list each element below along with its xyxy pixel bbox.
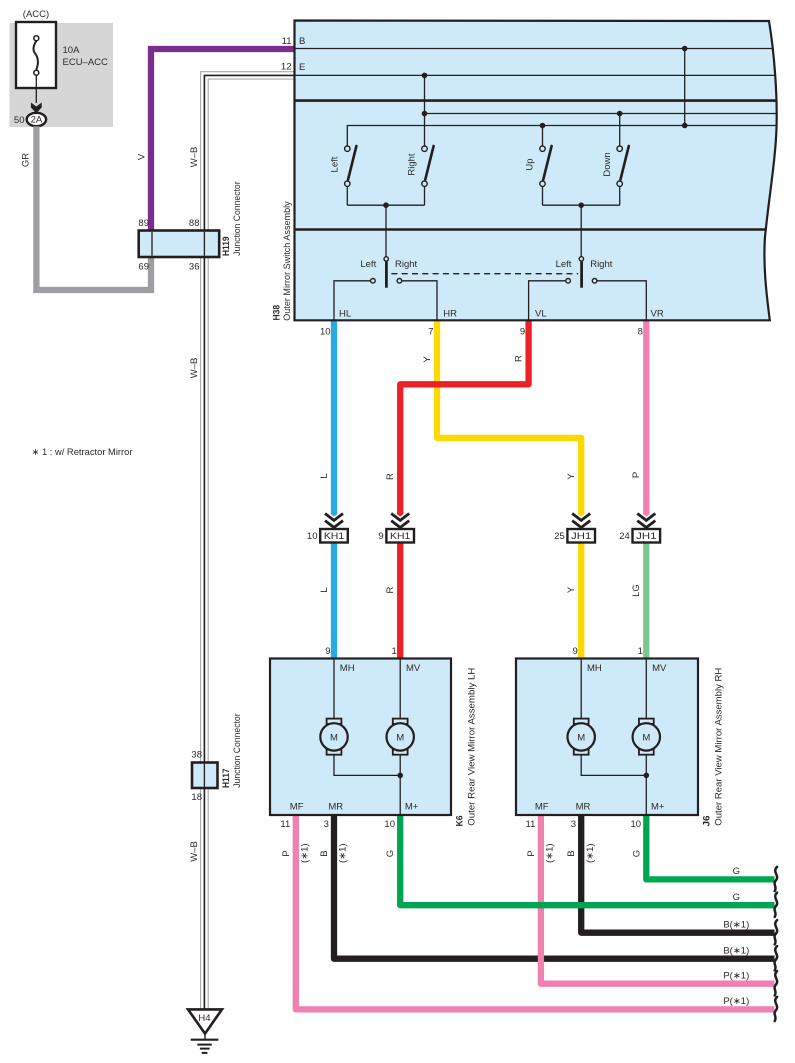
- svg-text:G: G: [385, 850, 396, 857]
- svg-text:50: 50: [14, 115, 25, 126]
- motor M: [568, 719, 595, 755]
- svg-text:J6: J6: [701, 816, 712, 827]
- svg-text:M: M: [642, 733, 650, 744]
- connector JH1 pin 24: [619, 514, 660, 543]
- svg-text:H38: H38: [272, 305, 283, 321]
- svg-text:Left: Left: [330, 156, 341, 172]
- switch Left: [345, 146, 357, 205]
- svg-text:B(∗1): B(∗1): [723, 945, 749, 956]
- wire L from HL pin 10 to mirror LH MH: [331, 320, 337, 658]
- svg-text:P(∗1): P(∗1): [723, 970, 749, 981]
- wire R from VL pin 9 to KH1 9: [400, 320, 528, 658]
- switch Up: [540, 146, 552, 205]
- wire break at right, label G: [775, 893, 778, 917]
- svg-text:E: E: [299, 62, 305, 73]
- wire LG from JH1 24 to mirror RH MV: [643, 536, 649, 659]
- svg-text:∗ 1 : w/ Retractor Mirror: ∗ 1 : w/ Retractor Mirror: [32, 447, 133, 458]
- svg-text:Outer Mirror Switch Assembly: Outer Mirror Switch Assembly: [282, 201, 293, 321]
- svg-text:B: B: [299, 36, 305, 47]
- wire motor commons to M+: [581, 755, 646, 776]
- svg-text:K6: K6: [454, 816, 465, 827]
- wire P RH MF to right edge: [541, 815, 775, 984]
- svg-text:MF: MF: [535, 801, 549, 812]
- svg-text:Y: Y: [566, 586, 577, 593]
- selector left contact: [371, 279, 376, 284]
- svg-text:MR: MR: [328, 801, 343, 812]
- terminal 2A oval: [27, 113, 46, 126]
- svg-text:Junction Connector: Junction Connector: [232, 713, 243, 787]
- wire fuse to terminal 2A: [35, 75, 37, 103]
- wire Y from HR pin 7 to JH1 25: [437, 320, 581, 658]
- svg-text:P: P: [631, 472, 642, 478]
- wire P from VR pin 8 to JH1 24: [643, 320, 649, 536]
- svg-text:9: 9: [573, 646, 578, 657]
- svg-text:(∗1): (∗1): [585, 843, 596, 863]
- svg-text:W–B: W–B: [189, 358, 200, 379]
- wire B LH MR to right edge: [334, 815, 775, 959]
- wire selector right to output: [402, 281, 438, 321]
- svg-text:10A: 10A: [63, 45, 81, 56]
- svg-text:R: R: [385, 473, 396, 480]
- wire GR from fuse to junction connector H119: [36, 126, 151, 290]
- svg-text:ECU–ACC: ECU–ACC: [63, 57, 109, 68]
- mirror assembly J6 box: [516, 659, 698, 816]
- svg-text:Junction Connector: Junction Connector: [232, 181, 243, 255]
- svg-text:1: 1: [392, 646, 397, 657]
- switch Down: [617, 146, 629, 205]
- svg-text:KH1: KH1: [324, 531, 344, 542]
- divider line upper: [295, 99, 782, 102]
- svg-text:KH1: KH1: [390, 531, 410, 542]
- svg-text:3: 3: [571, 819, 576, 830]
- selector common contact: [384, 257, 388, 261]
- svg-text:H119: H119: [221, 237, 232, 257]
- wire G LH M+ to right edge: [400, 815, 774, 905]
- junction connector H119: [139, 231, 220, 258]
- svg-text:LG: LG: [631, 584, 642, 597]
- svg-text:M+: M+: [405, 801, 419, 812]
- svg-text:VR: VR: [651, 308, 664, 319]
- svg-text:MV: MV: [652, 663, 667, 674]
- wire to horizontal selector: [385, 205, 387, 256]
- svg-text:R: R: [514, 355, 525, 362]
- wire MH to motor: [580, 659, 582, 719]
- selector right contact: [592, 279, 597, 284]
- svg-text:W–B: W–B: [189, 841, 200, 862]
- motor M: [387, 719, 414, 755]
- connector JH1 pin 25: [554, 514, 595, 543]
- wire bus to Down switch: [619, 114, 621, 146]
- svg-text:JH1: JH1: [571, 531, 591, 542]
- bus line B row: [295, 48, 782, 50]
- wire joining Up/Down switches: [543, 204, 620, 206]
- svg-text:B: B: [319, 850, 330, 856]
- svg-text:W–B: W–B: [189, 147, 200, 168]
- svg-text:3: 3: [324, 819, 329, 830]
- wire selector right to output: [597, 281, 647, 321]
- dashed mechanical link between selectors: [391, 273, 578, 275]
- svg-text:12: 12: [281, 61, 292, 72]
- selector blade: [385, 262, 388, 288]
- svg-text:HL: HL: [339, 308, 351, 319]
- svg-text:(∗1): (∗1): [299, 843, 310, 863]
- motor M: [320, 719, 347, 755]
- wire break at right, label B(&#8727;1): [775, 946, 778, 970]
- svg-text:VL: VL: [535, 308, 547, 319]
- svg-text:Left: Left: [360, 259, 376, 270]
- fuse element: [34, 36, 39, 41]
- connector KH1 pin 9: [378, 514, 414, 543]
- wire break at right, label G: [775, 867, 778, 891]
- svg-text:P: P: [281, 850, 292, 856]
- svg-text:69: 69: [138, 262, 149, 273]
- arrow into terminal: [31, 103, 42, 114]
- svg-text:Down: Down: [602, 152, 613, 176]
- wire MV to motor: [645, 659, 647, 719]
- svg-text:Right: Right: [395, 259, 418, 270]
- svg-text:38: 38: [191, 750, 202, 761]
- svg-text:Up: Up: [525, 158, 536, 170]
- selector left contact: [566, 279, 571, 284]
- wire selector left to output: [529, 281, 566, 321]
- svg-text:MF: MF: [290, 801, 304, 812]
- svg-text:Y: Y: [422, 356, 433, 363]
- wire break at right, label P(&#8727;1): [775, 997, 778, 1021]
- svg-text:24: 24: [619, 531, 630, 542]
- svg-text:9: 9: [520, 326, 525, 337]
- svg-text:M: M: [396, 733, 404, 744]
- svg-text:H117: H117: [221, 769, 232, 789]
- wire from E row to Right switch: [424, 75, 426, 145]
- svg-text:88: 88: [189, 218, 200, 229]
- wire W-B from switch E pin 12 down to ground: [201, 72, 296, 1009]
- svg-text:P(∗1): P(∗1): [723, 996, 749, 1007]
- wire G RH M+ to right edge: [646, 815, 774, 879]
- svg-text:89: 89: [138, 218, 149, 229]
- wire selector left to output: [334, 281, 371, 321]
- svg-text:GR: GR: [21, 153, 32, 167]
- svg-text:JH1: JH1: [636, 531, 656, 542]
- svg-text:11: 11: [526, 819, 536, 830]
- svg-text:18: 18: [191, 792, 202, 803]
- svg-text:HR: HR: [443, 308, 457, 319]
- svg-text:(ACC): (ACC): [23, 9, 49, 20]
- connector KH1 pin 10: [307, 514, 348, 543]
- svg-text:Outer Rear View Mirror Assembl: Outer Rear View Mirror Assembly RH: [714, 668, 725, 826]
- bus line B2: [347, 126, 781, 146]
- bus line E row: [295, 74, 782, 76]
- svg-text:R: R: [385, 586, 396, 593]
- fuse 10A ECU-ACC symbol box: [16, 22, 56, 88]
- svg-text:10: 10: [307, 531, 318, 542]
- svg-text:M+: M+: [651, 801, 665, 812]
- svg-text:9: 9: [378, 531, 383, 542]
- wire motor commons to M+: [334, 755, 400, 776]
- svg-text:Right: Right: [590, 259, 613, 270]
- divider line lower: [295, 228, 782, 231]
- junction connector H117: [192, 763, 218, 789]
- wire joining Left/Right switches: [347, 204, 424, 206]
- switch Right: [422, 146, 434, 205]
- wire bus to Up switch: [542, 126, 544, 146]
- selector right contact: [397, 279, 402, 284]
- svg-text:Outer Rear View Mirror Assembl: Outer Rear View Mirror Assembly LH: [467, 668, 478, 826]
- svg-text:MH: MH: [340, 663, 355, 674]
- wire from B row to bus: [684, 49, 686, 126]
- svg-text:10: 10: [631, 819, 642, 830]
- selector common contact: [579, 257, 583, 261]
- svg-text:G: G: [631, 850, 642, 857]
- svg-text:(∗1): (∗1): [545, 843, 556, 863]
- svg-text:M: M: [577, 733, 585, 744]
- svg-text:V: V: [136, 153, 147, 160]
- svg-text:11: 11: [282, 36, 292, 47]
- svg-text:Y: Y: [566, 473, 577, 480]
- ground H4: [188, 1009, 222, 1033]
- wire break at right, label P(&#8727;1): [775, 971, 778, 995]
- svg-text:(∗1): (∗1): [338, 843, 349, 863]
- svg-text:1: 1: [638, 646, 643, 657]
- svg-text:G: G: [733, 866, 740, 877]
- svg-text:G: G: [733, 892, 740, 903]
- bus line A: [425, 113, 782, 115]
- wire to vertical selector: [580, 205, 582, 256]
- wire MH to motor: [333, 659, 335, 719]
- wire break at right, label B(&#8727;1): [775, 920, 778, 944]
- svg-text:M: M: [330, 733, 338, 744]
- svg-text:B(∗1): B(∗1): [723, 919, 749, 930]
- svg-text:MV: MV: [406, 663, 421, 674]
- svg-text:Right: Right: [407, 153, 418, 176]
- wire MV to motor: [399, 659, 401, 719]
- svg-text:10: 10: [320, 326, 331, 337]
- svg-text:L: L: [319, 473, 330, 478]
- wire P LH MF to right edge: [296, 815, 775, 1009]
- svg-text:8: 8: [638, 326, 643, 337]
- svg-text:10: 10: [384, 819, 395, 830]
- svg-text:25: 25: [554, 531, 565, 542]
- svg-text:MR: MR: [576, 801, 591, 812]
- svg-text:H4: H4: [198, 1013, 210, 1024]
- svg-text:11: 11: [280, 819, 290, 830]
- svg-text:P: P: [526, 850, 537, 856]
- svg-text:9: 9: [325, 646, 330, 657]
- svg-text:7: 7: [428, 326, 433, 337]
- svg-text:L: L: [319, 587, 330, 592]
- wire V from H119 to switch B pin 11: [151, 49, 296, 232]
- svg-text:Left: Left: [556, 259, 572, 270]
- wire B RH MR to right edge: [581, 815, 774, 933]
- svg-text:MH: MH: [587, 663, 602, 674]
- selector blade: [580, 262, 583, 288]
- svg-text:2A: 2A: [31, 115, 43, 126]
- motor M: [633, 719, 660, 755]
- svg-text:B: B: [566, 850, 577, 856]
- fuse block panel (grey): [10, 23, 114, 127]
- mirror assembly K6 box: [270, 659, 451, 816]
- svg-text:36: 36: [189, 262, 200, 273]
